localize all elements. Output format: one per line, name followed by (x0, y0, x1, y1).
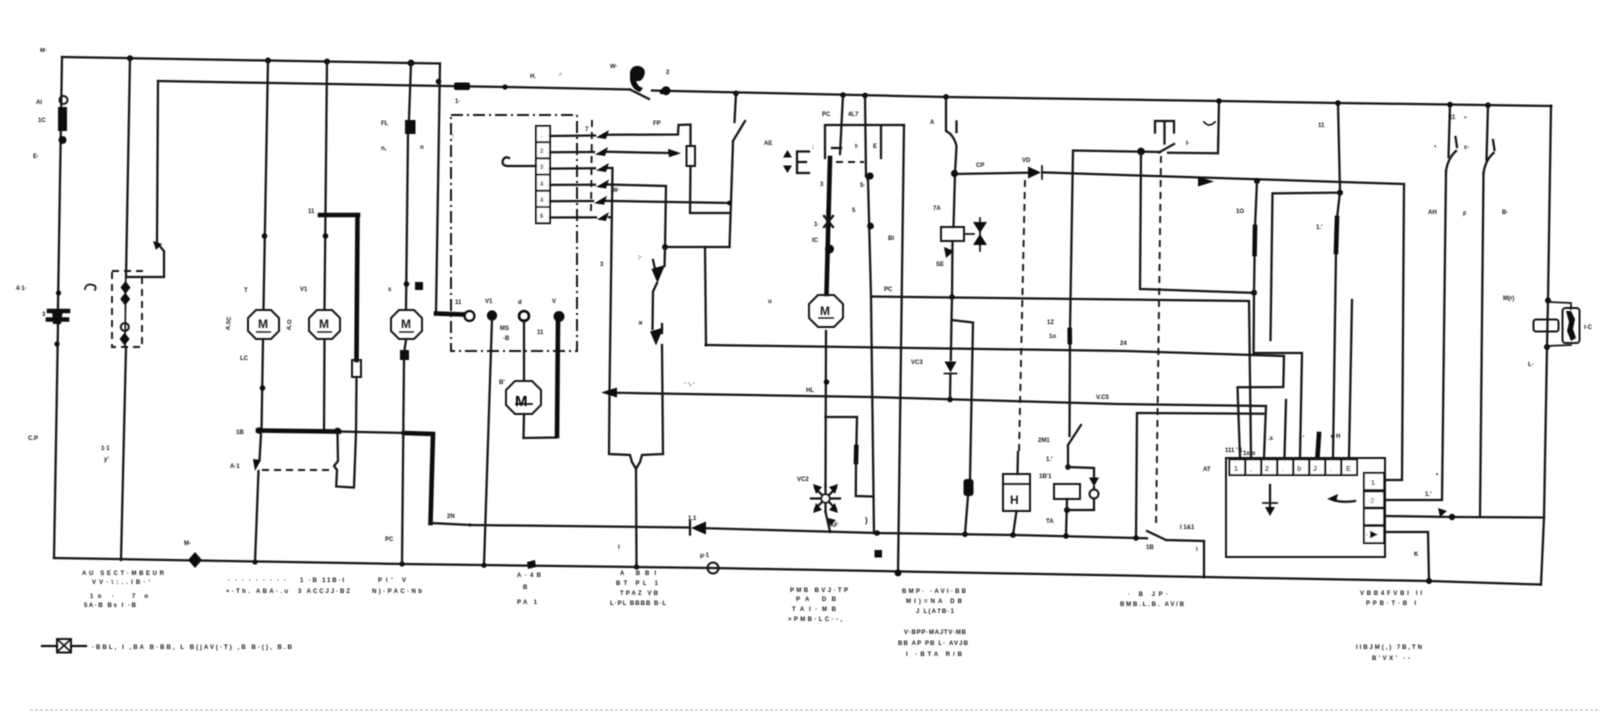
svg-text:BB AP PB L· AVJB: BB AP PB L· AVJB (898, 641, 969, 647)
arrow under coil (944, 247, 954, 258)
svg-text:TAI·MB: TAI·MB (792, 607, 837, 613)
svg-text:5·: 5· (860, 183, 865, 189)
selector contact row6 joins x612 (550, 216, 612, 218)
svg-text:4·1·: 4·1· (16, 286, 27, 292)
node junction y517-x1452 (1449, 514, 1455, 520)
node junction x1141 on y151 (1137, 148, 1145, 156)
wire resistor to thick bus (355, 377, 358, 433)
node klixon bottom (1544, 344, 1550, 350)
svg-text:A.5C: A.5C (226, 316, 233, 331)
svg-text:1O: 1O (1236, 209, 1244, 215)
svg-text:A·1: A·1 (230, 464, 240, 470)
thermostat contact blade on line (1159, 144, 1174, 153)
resistor R2 (687, 146, 696, 166)
diode VC4 on B4 (691, 522, 706, 535)
node junction B3-x950 (947, 397, 953, 403)
node junction bottom-x255 (252, 559, 257, 564)
relay coil RC (941, 227, 964, 241)
node junction H1-x411 (408, 60, 415, 67)
svg-text:V1: V1 (485, 299, 493, 305)
svg-text:VC2: VC2 (797, 477, 809, 483)
svg-text:1B: 1B (1146, 545, 1154, 551)
wire vertical from H1 corner down to connector 11 of program box (436, 64, 440, 313)
camshaft dashed coupling line (591, 120, 592, 214)
svg-text:M: M (820, 304, 830, 318)
svg-text:5A·B Bs I ·B: 5A·B Bs I ·B (84, 603, 137, 609)
node junction H2-x865 (862, 93, 868, 99)
selector contact row5 joins x729 (550, 201, 730, 203)
svg-text:AF: AF (830, 523, 838, 529)
relay parallel branch diode (1067, 467, 1094, 510)
motor ML tambour (506, 381, 541, 414)
wire bus B1 PC (871, 297, 1251, 458)
svg-text:T: T (244, 288, 248, 294)
svg-text:2M1: 2M1 (1038, 438, 1050, 444)
svg-text:Al: Al (36, 100, 42, 106)
black square mark under B4 (875, 550, 883, 558)
svg-text:2N: 2N (447, 514, 455, 520)
svg-text:♂: ♂ (558, 72, 563, 78)
wire top bus H2 neutral, left part (158, 81, 630, 90)
program box output terminals (465, 311, 475, 321)
svg-text:•: • (1436, 472, 1438, 478)
pressure switch top node (662, 244, 668, 250)
node junction bottom-x402 (399, 561, 404, 566)
wire terminal8 stub riser (1349, 300, 1352, 457)
svg-text:I·: I· (1186, 141, 1190, 147)
terminal circle on bottom bus x713 (708, 563, 719, 574)
svg-text:.: . (1282, 466, 1284, 473)
svg-text:H: H (1010, 493, 1019, 507)
svg-text:i: i (1196, 547, 1198, 553)
svg-text:μ·1: μ·1 (700, 553, 710, 559)
node dot x268-y236 (262, 233, 268, 239)
svg-text:1 ·B 11B·I: 1 ·B 11B·I (300, 578, 344, 584)
pressure switch contact chain (653, 248, 666, 454)
svg-text:2: 2 (1265, 466, 1269, 473)
wire motor M bottom to snowflake (824, 331, 827, 486)
svg-text:C.P: C.P (28, 436, 38, 442)
motor M principal (809, 295, 843, 327)
klixon parallel branch (1547, 302, 1571, 346)
program timer dash-dot enclosure (451, 115, 577, 351)
fan symbol VC2 snowflake (811, 484, 840, 513)
svg-text:3 ACCJJ·BZ: 3 ACCJJ·BZ (298, 589, 350, 595)
svg-text:1·: 1· (455, 99, 460, 105)
wire motor ML bottom (524, 414, 557, 438)
svg-text:PPB·T·B I: PPB·T·B I (1366, 601, 1416, 607)
svg-text:M: M (319, 317, 329, 331)
svg-text:J: J (1313, 466, 1317, 473)
connector mark on bottom bus x532 (527, 560, 536, 569)
control module box (1226, 458, 1385, 557)
node junction H2-x1219 (1216, 98, 1222, 104)
wire motor2 supply x327 (325, 62, 328, 309)
heater H box (1016, 452, 1019, 474)
svg-text:·: · (1366, 533, 1368, 539)
wire x158 from H2 corner down to filter (127, 81, 164, 277)
filter contact dots (124, 277, 127, 347)
svg-text:W·: W· (612, 188, 620, 194)
node dot x411-y284 (404, 281, 410, 287)
wire stub H2 to connector pin x865 (865, 95, 866, 176)
node junction H2-x1488 (1485, 102, 1491, 108)
wire motor1 bottom to thick bus (262, 340, 264, 431)
svg-text:1Z: 1Z (1047, 320, 1054, 326)
connector square on motor3 wire (400, 350, 409, 360)
wire right switch 1 (1386, 105, 1450, 500)
wire coil to B4 (1066, 499, 1067, 536)
node dot left wire y140 (59, 136, 67, 144)
svg-text:M: M (515, 393, 528, 410)
node dot x327-y236 (323, 233, 329, 239)
svg-text:,: , (1250, 466, 1252, 473)
wire motor aux winding through B1 to B4 (866, 176, 874, 533)
svg-text:3: 3 (820, 182, 824, 188)
svg-text:V: V (552, 299, 556, 305)
wire bottom bus N (54, 558, 1540, 585)
svg-text:TPAZ VB: TPAZ VB (620, 591, 659, 597)
svg-text:N)·PAC·Nb: N)·PAC·Nb (372, 589, 422, 595)
svg-text:▪: ▪ (1434, 144, 1436, 150)
contact loop under thick bus (334, 432, 356, 488)
svg-text:7: 7 (585, 127, 589, 133)
selector contact row1 with jog to resistor (550, 125, 691, 147)
hook mark near filter (85, 285, 96, 291)
svg-text:E: E (873, 144, 877, 150)
blob on shaft (825, 245, 834, 254)
svg-text:7A: 7A (933, 206, 941, 212)
svg-text:3: 3 (600, 262, 604, 268)
thick connector blob on loop (854, 447, 859, 462)
node junction H2-x946 (943, 94, 949, 100)
node klixon top (1545, 298, 1551, 304)
svg-text:5: 5 (852, 208, 856, 214)
svg-text:1: 1 (1234, 466, 1238, 473)
wire terminal6 thick stub (1318, 434, 1320, 457)
wire triac out jog to x973 (952, 297, 974, 480)
svg-text:FL: FL (381, 121, 389, 127)
X mark on shaft (824, 216, 833, 227)
wire line y151 from H2-x1219 with thermostat gap (1068, 101, 1219, 467)
svg-text:I ·BTA R/B: I ·BTA R/B (906, 652, 963, 658)
node junction H2-x1338 (1335, 100, 1341, 106)
wire left edge vertical L (54, 57, 62, 558)
resistor R1 vertical (352, 360, 361, 377)
wire CP line with diode VD (955, 172, 1404, 480)
svg-text:n: n (420, 145, 424, 151)
svg-text:A.O: A.O (287, 319, 294, 331)
svg-text:1o ·: 1o · (90, 594, 114, 600)
svg-text:J L(A7B·1: J L(A7B·1 (916, 609, 955, 615)
wire motor3 bottom to bottom bus (402, 340, 406, 564)
node junction bottom-x484 (481, 563, 486, 568)
antiparasite filter FA dashed box (112, 271, 142, 347)
svg-text:I: I (618, 545, 620, 551)
svg-text:I 1&1: I 1&1 (1180, 525, 1195, 531)
wire top bus H2, right part after door switch (652, 91, 1551, 107)
svg-text:HL: HL (806, 388, 814, 394)
svg-text:>PMB·LC·-,: >PMB·LC·-, (788, 617, 842, 623)
svg-text:11: 11 (537, 330, 544, 336)
wire heater bottom (1013, 511, 1017, 535)
legend symbol (42, 645, 86, 647)
selector contact row2 wiper arrow (550, 152, 668, 153)
svg-text:n,: n, (381, 146, 387, 152)
node junction H2-x736 (733, 91, 739, 97)
selector contact row4 feeds x666 (550, 185, 666, 248)
svg-text:A: A (930, 120, 935, 126)
node junction x898 bottom bus (895, 570, 902, 577)
svg-text:7o: 7o (132, 594, 148, 600)
svg-text:A·4B: A·4B (517, 573, 542, 579)
node coil bottom (1064, 507, 1070, 513)
thick mark on relay column (1067, 330, 1072, 342)
svg-text:1·: 1· (814, 222, 819, 228)
wire right switch 2 (1480, 105, 1488, 516)
svg-text:.s: .s (1268, 436, 1274, 442)
svg-text:PA 1: PA 1 (517, 600, 538, 606)
svg-text:VD: VD (1022, 158, 1031, 164)
wire right edge vertical (1541, 106, 1551, 585)
svg-text:+·Th. ABA·.u: +·Th. ABA·.u (226, 589, 288, 595)
svg-text:1o o: 1o o (1243, 451, 1256, 457)
terminal row squares 1-8 (1230, 460, 1358, 476)
connector circle on left wire (60, 96, 68, 104)
svg-text:I·C: I·C (1584, 325, 1593, 331)
svg-text:E: E (1346, 466, 1351, 473)
svg-text:TA: TA (1046, 519, 1054, 525)
svg-text:·2: ·2 (1368, 498, 1374, 505)
label square motor3 (415, 282, 423, 290)
connector E label with triangles (797, 152, 809, 174)
svg-text:11: 11 (308, 209, 315, 215)
node junction aux y226 (867, 223, 874, 230)
wire terminal V1 to bottom bus (484, 319, 492, 565)
node junction H1-x327 (324, 59, 330, 65)
svg-text:L·: L· (1528, 362, 1534, 368)
dashed line thermostat down (1156, 156, 1161, 528)
svg-text:B': B' (499, 380, 505, 386)
svg-text:M(r): M(r) (1503, 296, 1514, 302)
node dot motor1 bottom y388 (260, 385, 266, 391)
svg-text:1: 1 (1371, 480, 1375, 487)
svg-text:PC: PC (884, 287, 893, 293)
wire branch to B2 (705, 247, 706, 345)
svg-text:BMB.L.B. AV/B: BMB.L.B. AV/B (1120, 602, 1185, 608)
wire loop from node to x1272 down (1271, 193, 1341, 340)
node junction B4-x877 (874, 530, 880, 536)
svg-text:MI)=NA DB: MI)=NA DB (906, 599, 963, 605)
dashed mechanical link between contacts (262, 469, 334, 471)
node junction bottom-x1429 (1426, 578, 1432, 584)
node junction x438 on H2 (436, 79, 442, 85)
svg-text:PMB BVJ·TP: PMB BVJ·TP (790, 588, 848, 594)
svg-text:E·: E· (33, 154, 39, 160)
wire snowflake to B4 (826, 512, 831, 532)
svg-text:►H: ►H (1330, 434, 1340, 440)
wire top bus H1 phase (62, 57, 440, 64)
svg-text:FP: FP (653, 121, 661, 127)
wire y517 line terminal3 to right edge (1386, 516, 1544, 518)
node junction H2-x843 (840, 92, 846, 98)
node junction aux pin (866, 172, 873, 179)
funnel merge of x612 and pressure switch (609, 393, 663, 567)
wire y413 link line (1136, 413, 1264, 538)
svg-text:·BBL, I ,BA B·BB, L B(jAV(·T: ·BBL, I ,BA B·BB, L B(jAV(·T) ,B B·(), B… (92, 645, 293, 651)
svg-text:M·: M· (184, 541, 191, 547)
relay coil 1B1 (1054, 484, 1080, 499)
earth terminal diamond on bottom bus (188, 552, 202, 568)
svg-text:M: M (258, 317, 268, 331)
wire motor2 bottom (323, 340, 326, 432)
svg-text:L·PL BBBB B·L: L·PL BBBB B·L (610, 601, 666, 607)
arrow on CP line (1198, 177, 1214, 187)
svg-text:AH: AH (1428, 210, 1437, 216)
side terminal squares (1364, 473, 1384, 543)
svg-text:b: b (1297, 466, 1301, 473)
switch contact under motor1 (255, 434, 261, 562)
svg-text:1.1: 1.1 (688, 516, 697, 522)
svg-text:'': '' (1464, 117, 1467, 123)
svg-text:AT: AT (1203, 467, 1211, 473)
svg-text:B'VX' ·-: B'VX' ·- (1372, 656, 1410, 662)
node junction relay top (1065, 464, 1071, 470)
wire terminal4 stub riser (1285, 400, 1287, 457)
svg-text:VC3: VC3 (911, 360, 923, 366)
svg-text:F: F (1463, 212, 1467, 218)
arrow down symbol inside module (1269, 485, 1271, 512)
svg-text::·: :· (638, 255, 642, 261)
node junction H2-x662 (659, 89, 664, 94)
svg-text:AU SECT·MBEUR: AU SECT·MBEUR (82, 571, 165, 577)
arrow left symbol inside module (1333, 500, 1355, 502)
svg-text:M·: M· (40, 48, 47, 54)
motor connector bracket bar (825, 125, 904, 158)
node junction B1-x952 (949, 294, 955, 300)
svg-text:d: d (518, 300, 522, 306)
wire motor3 supply x411 with fuse (406, 63, 411, 308)
diode VD (1028, 167, 1041, 179)
node CP tee (951, 170, 958, 177)
wire terminal d to motor ML (523, 320, 525, 380)
svg-text:1.': 1.' (1425, 492, 1432, 498)
fuse F1 on left wire (58, 107, 67, 131)
wire terminal4 to bottom bus (1386, 532, 1429, 581)
selector contact row3 feeds x612 (550, 168, 613, 393)
wire x731 from H2 with contact (730, 93, 746, 247)
svg-text:A BBI: A BBI (620, 571, 656, 577)
svg-text:SE: SE (936, 262, 944, 268)
svg-text:V·BPP·MAJTV·MB: V·BPP·MAJTV·MB (904, 630, 967, 636)
node junction H2-x1450 (1447, 102, 1453, 108)
fuse F3 (405, 120, 416, 134)
svg-text:K: K (1414, 552, 1419, 558)
svg-text:✕: ✕ (638, 320, 643, 327)
svg-text:B·: B· (1502, 210, 1508, 216)
wire diode line B4 left part (470, 525, 1147, 538)
svg-text:1B: 1B (236, 430, 244, 436)
svg-text:y': y' (104, 457, 109, 463)
wire stub H2 to connector pin x840 (832, 95, 843, 154)
svg-text:IIBJM(,) 7B,TN: IIBJM(,) 7B,TN (1356, 645, 1422, 651)
motor M3 pompe (391, 310, 422, 339)
switch contact 1B on B4 (1147, 531, 1204, 577)
node junction thick bus x337 (334, 428, 341, 435)
svg-text:IC: IC (812, 238, 819, 244)
branch from motor wire to connector loop (826, 417, 858, 446)
node junction H2-x505 (502, 84, 507, 89)
connector blob on x158 (153, 241, 162, 250)
svg-text:2: 2 (666, 70, 670, 76)
svg-text:·B: ·B (503, 336, 510, 342)
svg-text:BMP· ·AVI·BB: BMP· ·AVI·BB (902, 589, 967, 595)
fuse F2 on H2 (454, 83, 470, 91)
svg-text:24: 24 (1120, 341, 1127, 347)
svg-text:s: s (388, 287, 392, 293)
node junction H1-x130 (127, 55, 133, 61)
node junction x1255-y293 (1251, 290, 1257, 296)
svg-text:CP: CP (976, 163, 984, 169)
svg-text:1.': 1.' (1046, 457, 1053, 463)
svg-text:11: 11 (1449, 115, 1456, 121)
svg-text:1C: 1C (38, 118, 46, 124)
thermostat symbol (1155, 121, 1174, 144)
motor M2 (309, 310, 340, 339)
node junction B4-x1136 (1133, 535, 1139, 541)
svg-text:· ': · ' (1299, 436, 1305, 442)
svg-text:t·: t· (855, 144, 859, 150)
thick bus lower left (258, 431, 339, 432)
thermal cutout on x973 (964, 479, 974, 496)
svg-text:4L7: 4L7 (848, 112, 859, 118)
wire bus B3 VC5 with left arrow end (610, 393, 1266, 457)
wire x130 phase through antiparasite filter down to bottom bus (121, 58, 130, 560)
svg-text:1o: 1o (1049, 334, 1056, 340)
svg-text:LC: LC (240, 356, 249, 362)
motor M main shaft thick wire (827, 158, 831, 294)
svg-text:W·: W· (610, 64, 618, 70)
wire motor1 supply x268 (264, 61, 269, 309)
svg-text:B: B (523, 585, 528, 591)
svg-text:·········: ········· (228, 578, 286, 584)
svg-text:PC: PC (822, 112, 831, 118)
thick wire terminal V down (557, 321, 558, 436)
node junction x1340-y192 (1337, 190, 1343, 196)
switch S door interlock on H2 (630, 90, 649, 100)
thick tap wire at motor2 top (320, 215, 358, 360)
wire x1140 link down to node 1255 (1140, 152, 1253, 293)
capacitor C1 on left edge (48, 311, 68, 320)
svg-text:VV·\:..lB·': VV·\:..lB·' (92, 580, 151, 586)
klixon element horizontal rect (1534, 320, 1559, 332)
svg-text:· ·, ·: · ·, · (684, 381, 695, 387)
diode VC3 (945, 362, 957, 373)
arrow mark near node (1438, 508, 1447, 517)
svg-text:1·1: 1·1 (101, 446, 110, 452)
wire third pin down to bottom bus (898, 125, 904, 574)
wire resistor down to x729 (690, 166, 729, 213)
svg-text:c·: c· (1464, 145, 1469, 151)
dashed link thermostat to heater (1019, 180, 1025, 452)
svg-text::: : (812, 145, 814, 151)
svg-text:· B JP·: · B JP· (1128, 592, 1168, 598)
svg-text:u: u (768, 299, 772, 305)
motor M1 ventilateur (248, 310, 279, 339)
svg-text:11: 11 (455, 300, 462, 306)
curve mark (1204, 122, 1215, 125)
svg-text:111 ' 1: 111 ' 1 (1225, 448, 1243, 454)
